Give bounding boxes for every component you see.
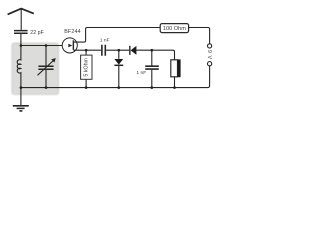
transistor Q1 channel bar [72,40,74,50]
gate arrow of Q1 [68,44,72,47]
junction D1/C4 [151,49,154,52]
svg-text:22 pF: 22 pF [30,30,44,36]
wire C1 to tank node A [20,34,22,46]
top rail from R2 down to plus terminal [189,28,210,44]
diode D2 shunt stubs [118,50,120,87]
wire node A to gate of Q1 [21,45,62,47]
diode D2 triangle [114,59,123,65]
ground bar 1 [13,105,29,107]
battery minus terminal [208,62,212,66]
variable capacitor C2 bottom stub [45,70,47,88]
svg-text:1 nF: 1 nF [100,37,110,43]
variable capacitor C2 top stub [45,46,47,66]
transistor Q1 BF244 envelope circle [62,38,77,53]
diode D1 cathode bar [129,46,131,55]
antenna mast wire [20,9,22,30]
svg-text:9 V: 9 V [206,50,212,60]
capacitor C4 1 nF shunt stubs [151,50,153,87]
junction rail/C4 [151,86,154,89]
junction source/R1 [85,49,88,52]
ground bar 3 [19,110,22,112]
junction rail/C2 [45,86,48,89]
svg-text:100 Ohm: 100 Ohm [163,26,186,32]
earphone crystal bar [178,59,181,77]
antenna [8,9,34,15]
junction C2 top [45,44,48,47]
ground stem [20,88,22,106]
inductor L1 [17,46,21,88]
diode D2 cathode bar [114,64,123,66]
junction rail/ground [20,86,23,89]
earphone body [171,60,178,77]
junction node A (antenna/L1/gate) [20,44,23,47]
junction rail/R1 [85,86,88,89]
resistor R1 5 kOhm stubs [85,50,87,87]
wire C3 to node B [106,49,129,51]
svg-text:BF244: BF244 [64,29,81,35]
variable capacitor C2 arrowhead [51,58,56,63]
junction rail/earphone [173,86,176,89]
resistor R2 100 Ohm box [160,24,188,33]
capacitor C3 1 nF series plates [102,45,105,56]
svg-text:1 nF: 1 nF [136,70,146,76]
resistor R1 box [81,55,92,79]
ground bar 2 [17,107,25,109]
junction node B (C3/D2) [118,49,121,52]
svg-text:5 kOhm: 5 kOhm [84,57,90,76]
bottom ground rail and riser to minus terminal [21,66,210,88]
variable capacitor C2 arrow shaft [38,60,54,75]
drain wire of Q1 up to positive top rail [73,28,160,43]
variable capacitor C2 plates [38,66,53,69]
junction rail/D2 [118,86,121,89]
source wire of Q1 [73,49,101,51]
diode D1 triangle [131,46,137,55]
earphone bottom stub [174,77,176,88]
wire diode D1 to earphone corner [136,50,174,60]
capacitor C1 22 pF plates [14,31,28,34]
capacitor C4 1 nF shunt plates [145,66,159,69]
battery plus terminal [208,44,212,48]
tuned-circuit highlight box [12,43,59,94]
